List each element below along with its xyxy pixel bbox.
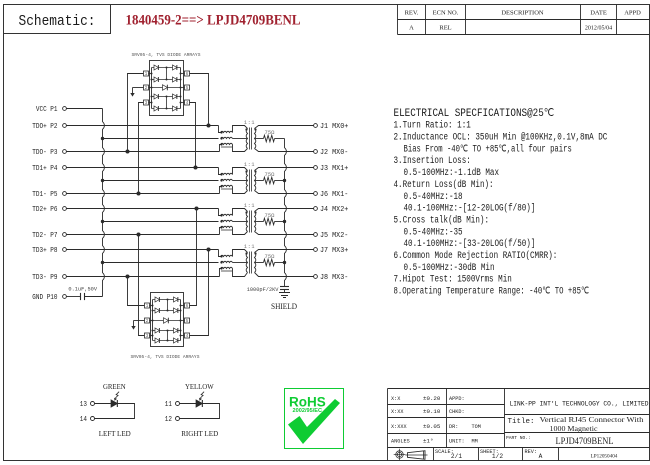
svg-text:Title:: Title: bbox=[508, 418, 535, 426]
svg-text:SHIELD: SHIELD bbox=[271, 301, 297, 311]
svg-text:RIGHT LED: RIGHT LED bbox=[181, 429, 218, 438]
svg-text:REL: REL bbox=[439, 25, 451, 32]
svg-text:TD2- P7: TD2- P7 bbox=[32, 232, 57, 240]
svg-text:VCC P1: VCC P1 bbox=[36, 106, 58, 114]
svg-text:J6 MX1-: J6 MX1- bbox=[320, 191, 348, 199]
svg-text:0.5-40MHz:-35: 0.5-40MHz:-35 bbox=[404, 226, 463, 237]
svg-text:0.5-40MHz:-18: 0.5-40MHz:-18 bbox=[404, 191, 463, 202]
svg-text:TD1+ P4: TD1+ P4 bbox=[32, 165, 57, 173]
svg-text:75Ω: 75Ω bbox=[265, 129, 276, 136]
svg-text:CHKD:: CHKD: bbox=[449, 409, 465, 415]
svg-text:TD3+ P8: TD3+ P8 bbox=[32, 247, 57, 255]
svg-text:YELLOW: YELLOW bbox=[185, 384, 214, 391]
svg-text:J8 MX3-: J8 MX3- bbox=[320, 274, 348, 282]
svg-text:APPD: APPD bbox=[624, 10, 641, 17]
svg-text:ECN NO.: ECN NO. bbox=[433, 10, 459, 17]
svg-text:TDO+ P2: TDO+ P2 bbox=[32, 123, 57, 131]
svg-text:4.Return Loss(dB Min):: 4.Return Loss(dB Min): bbox=[394, 179, 494, 190]
svg-text:±0.10: ±0.10 bbox=[423, 408, 441, 415]
svg-text:0.1uF,50V: 0.1uF,50V bbox=[68, 287, 97, 293]
svg-text:J2 MX0-: J2 MX0- bbox=[320, 149, 348, 157]
svg-text:GREEN: GREEN bbox=[103, 384, 126, 391]
svg-text:ANGLES: ANGLES bbox=[391, 439, 410, 445]
svg-text:A: A bbox=[409, 25, 414, 32]
svg-text:12: 12 bbox=[165, 416, 172, 424]
svg-text:±0.05: ±0.05 bbox=[423, 423, 441, 430]
svg-text:75Ω: 75Ω bbox=[265, 171, 276, 178]
svg-text:GND P10: GND P10 bbox=[32, 294, 57, 302]
svg-text:LP12050404: LP12050404 bbox=[591, 454, 618, 460]
svg-text:DR:: DR: bbox=[449, 424, 458, 430]
svg-text:5.Cross talk(dB Min):: 5.Cross talk(dB Min): bbox=[394, 214, 490, 225]
svg-text:UNIT:: UNIT: bbox=[449, 439, 465, 445]
svg-text:Vertical RJ45 Connector With: Vertical RJ45 Connector With bbox=[540, 416, 644, 424]
svg-text:1/2: 1/2 bbox=[492, 453, 503, 460]
svg-text:7.Hipot Test: 1500Vrms Min: 7.Hipot Test: 1500Vrms Min bbox=[394, 274, 512, 285]
svg-text:TDO- P3: TDO- P3 bbox=[32, 149, 57, 157]
svg-text:TD2+ P6: TD2+ P6 bbox=[32, 206, 57, 214]
svg-text:REV:: REV: bbox=[525, 449, 537, 455]
svg-text:2012/05/04: 2012/05/04 bbox=[585, 26, 612, 32]
svg-text:Schematic:: Schematic: bbox=[19, 13, 96, 30]
svg-text:75Ω: 75Ω bbox=[265, 212, 276, 219]
svg-text:1:1: 1:1 bbox=[244, 162, 255, 168]
svg-text:1:1: 1:1 bbox=[244, 244, 255, 250]
svg-text:X:XX: X:XX bbox=[391, 409, 404, 415]
svg-text:8.Operating Temperature Range:: 8.Operating Temperature Range: -40℃ TO +… bbox=[394, 286, 590, 297]
svg-text:TD3- P9: TD3- P9 bbox=[32, 274, 57, 282]
svg-text:14: 14 bbox=[80, 416, 87, 424]
svg-text:±0.20: ±0.20 bbox=[423, 395, 441, 402]
svg-text:Bias From -40℃ TO +85℃,all fou: Bias From -40℃ TO +85℃,all four pairs bbox=[404, 143, 572, 154]
svg-text:DATE: DATE bbox=[590, 10, 607, 17]
svg-text:75Ω: 75Ω bbox=[265, 253, 276, 260]
svg-text:13: 13 bbox=[80, 401, 87, 409]
svg-text:3.Insertion Loss:: 3.Insertion Loss: bbox=[394, 155, 471, 166]
svg-text:1000 Magnetic: 1000 Magnetic bbox=[550, 425, 598, 433]
svg-text:ELECTRICAL SPECFICATIONS@25℃: ELECTRICAL SPECFICATIONS@25℃ bbox=[394, 108, 555, 120]
svg-text:SRV05-4, TVS DIODE ARRAYS: SRV05-4, TVS DIODE ARRAYS bbox=[132, 52, 201, 58]
svg-text:2002/95/EC: 2002/95/EC bbox=[293, 408, 323, 414]
svg-text:J5 MX2-: J5 MX2- bbox=[320, 232, 348, 240]
svg-text:TOM: TOM bbox=[472, 424, 481, 430]
svg-text:1000pF/2KV: 1000pF/2KV bbox=[247, 287, 280, 293]
svg-text:X:X: X:X bbox=[391, 396, 401, 402]
svg-text:1.Turn Ratio: 1:1: 1.Turn Ratio: 1:1 bbox=[394, 120, 471, 131]
svg-text:DESCRIPTION: DESCRIPTION bbox=[501, 10, 544, 17]
svg-text:0.5-100MHz:-1.1dB Max: 0.5-100MHz:-1.1dB Max bbox=[404, 167, 500, 178]
svg-text:1:1: 1:1 bbox=[244, 120, 255, 126]
svg-text:40.1-100MHz:-[12-20LOG(f/80)]: 40.1-100MHz:-[12-20LOG(f/80)] bbox=[404, 203, 536, 214]
svg-text:APPD:: APPD: bbox=[449, 396, 465, 402]
svg-text:11: 11 bbox=[165, 401, 172, 409]
svg-text:MM: MM bbox=[472, 439, 478, 445]
svg-text:6.Common Mode Rejection RATIO(: 6.Common Mode Rejection RATIO(CMRR): bbox=[394, 250, 558, 261]
svg-text:A: A bbox=[539, 453, 543, 460]
svg-text:LPJD4709BENL: LPJD4709BENL bbox=[556, 436, 614, 446]
svg-text:40.1-100MHz:-[33-20LOG(f/50)]: 40.1-100MHz:-[33-20LOG(f/50)] bbox=[404, 238, 536, 249]
svg-text:J1 MX0+: J1 MX0+ bbox=[320, 123, 348, 131]
svg-text:J7 MX3+: J7 MX3+ bbox=[320, 247, 348, 255]
svg-text:LEFT LED: LEFT LED bbox=[99, 429, 131, 438]
svg-text:2/1: 2/1 bbox=[451, 453, 462, 460]
svg-text:1:1: 1:1 bbox=[244, 203, 255, 209]
svg-text:2.Inductance OCL: 350uH Min @1: 2.Inductance OCL: 350uH Min @100KHz,0.1V… bbox=[394, 132, 608, 143]
svg-text:LINK-PP INT'L TECHNOLOGY CO.,: LINK-PP INT'L TECHNOLOGY CO., LIMITED bbox=[510, 401, 649, 408]
svg-text:REV.: REV. bbox=[405, 10, 419, 17]
svg-text:J3 MX1+: J3 MX1+ bbox=[320, 165, 348, 173]
svg-text:TD1- P5: TD1- P5 bbox=[32, 191, 57, 199]
svg-text:X:XXX: X:XXX bbox=[391, 424, 407, 430]
svg-text:1840459-2==> LPJD4709BENL: 1840459-2==> LPJD4709BENL bbox=[126, 13, 301, 29]
svg-text:0.5-100MHz:-30dB Min: 0.5-100MHz:-30dB Min bbox=[404, 262, 495, 273]
svg-text:SRV05-4, TVS DIODE ARRAYS: SRV05-4, TVS DIODE ARRAYS bbox=[131, 354, 200, 360]
svg-text:±1°: ±1° bbox=[423, 438, 433, 445]
svg-text:J4 MX2+: J4 MX2+ bbox=[320, 206, 348, 214]
svg-text:PART NO.:: PART NO.: bbox=[506, 435, 531, 441]
